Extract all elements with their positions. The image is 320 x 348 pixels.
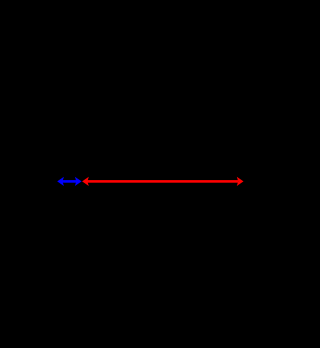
red double arrow (82, 177, 243, 186)
blue double arrow (57, 177, 81, 186)
